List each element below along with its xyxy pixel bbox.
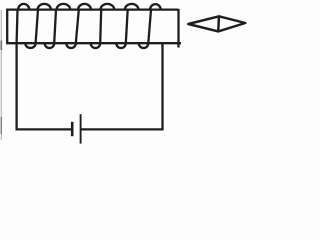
coil turn 1 top arc bbox=[18, 4, 29, 10]
coil turn 3 front wire bbox=[54, 10, 56, 44]
battery cell negative plate (short) bbox=[71, 122, 74, 136]
coil turn 5 front wire bbox=[100, 10, 101, 44]
left lead wire bbox=[15, 43, 17, 129]
right lead wire bbox=[161, 43, 163, 129]
coil bottom loop 1 bbox=[25, 43, 35, 48]
coil bottom loop 6 bbox=[139, 43, 149, 48]
coil turn 6 front wire bbox=[126, 10, 128, 44]
core bar (iron core rectangle) bbox=[6, 9, 181, 48]
coil turn 6 top arc bbox=[125, 4, 139, 10]
coil turn 7 front wire bbox=[148, 10, 151, 44]
coil turn 2 front wire bbox=[36, 10, 38, 44]
coil bottom loop 2 bbox=[45, 43, 55, 48]
bottom wire right segment bbox=[81, 128, 164, 130]
coil bottom loop 5 bbox=[116, 43, 126, 48]
coil bottom loop 3 bbox=[66, 43, 76, 48]
compass needle (rhombus with centre line) bbox=[188, 16, 245, 31]
coil bottom loop 4 bbox=[91, 43, 101, 48]
bottom wire left segment bbox=[16, 128, 73, 130]
coil turn 3 top arc bbox=[57, 4, 71, 10]
coil turn 1 front wire bbox=[15, 10, 18, 44]
coil turn 4 top arc bbox=[78, 4, 91, 10]
coil turn 5 top arc bbox=[100, 4, 114, 10]
battery cell positive plate (long) bbox=[80, 114, 82, 143]
coil turn 7 top arc bbox=[150, 4, 161, 10]
coil turn 2 top arc bbox=[38, 4, 52, 10]
coil turn 4 front wire bbox=[76, 10, 79, 44]
